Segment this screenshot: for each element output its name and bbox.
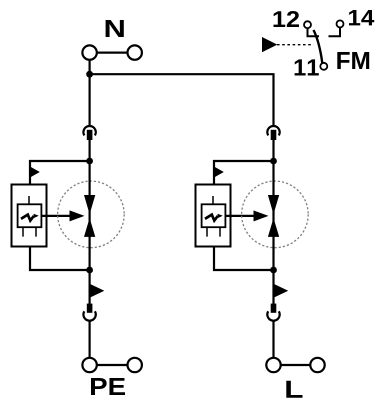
label 14 [349,10,374,25]
trigger arrow T1 head [70,210,85,221]
wire left to PE [88,321,90,358]
wire right branch lower [214,247,274,271]
trigger box T2 bolt [205,215,218,221]
gap electrode right down [268,195,279,214]
node left lower junction [86,267,93,274]
wire right mid [272,140,274,161]
FM contact 14 circle [337,20,344,27]
wire left upper [88,74,90,125]
disconnector F1 arc [83,126,95,135]
wire left through gap [88,161,90,270]
wire right through gap [272,161,274,270]
trigger box T1 top tick [28,196,30,205]
gap electrode left up [84,218,95,237]
wire right to L [272,321,274,358]
wire right branch upper [214,161,274,185]
label N [106,20,124,37]
FM contact 14 lead [329,27,341,36]
FM dashed link [277,44,314,46]
flag right lower [274,284,289,298]
disconnector F1 bar [87,130,93,140]
terminal L1 [266,358,280,372]
terminal PE1 [82,358,96,372]
flag right branch [214,167,224,178]
flag left lower [90,284,105,298]
wire left branch lower [30,247,90,271]
trigger box T2 [196,185,231,247]
terminal N2 [128,45,142,59]
gap electrode right up [268,218,279,237]
node right lower junction [270,267,277,274]
FM contact 11 circle [320,63,327,70]
trigger box T2 inner [202,204,226,227]
FM lever [314,30,323,63]
gas discharge tube G1 dashed circle [58,181,125,248]
trigger box T2 bottom ticks [207,227,220,236]
terminal L2 [310,358,324,372]
trigger arrow T1 line [41,215,71,217]
wire PE link [97,364,128,366]
label 11 [295,59,319,75]
wire L link [281,364,311,366]
gas discharge tube G2 dashed circle [242,181,309,248]
disconnector F3 bar [271,130,277,140]
wire left low [88,270,90,304]
wire left branch upper [30,161,90,185]
trigger box T2 top tick [212,196,214,205]
terminal PE2 [128,358,142,372]
wire N bus [90,74,274,125]
wire N link [97,51,128,53]
FM contact 12 lead [308,28,320,36]
disconnector F4 arc [267,311,279,320]
label FM [337,52,369,69]
disconnector F2 bar [87,304,93,313]
flag left branch [30,167,40,178]
node N bus junction [86,71,93,78]
disconnector F2 arc [83,311,95,320]
wire left mid [88,140,90,161]
FM contact 12 circle [304,21,311,28]
FM indicator arrow [262,37,277,52]
gap electrode left down [84,195,95,214]
trigger box T1 inner [18,204,42,227]
node right upper junction [270,158,277,165]
label PE [91,378,125,395]
disconnector F4 bar [271,304,277,313]
trigger box T1 bolt [21,215,34,221]
node left upper junction [86,158,93,165]
trigger box T1 [12,185,47,247]
wire right low [272,270,274,304]
label 12 [274,11,300,27]
terminal N1 [82,45,96,59]
trigger arrow T2 line [225,215,255,217]
wire N drop [88,60,90,74]
trigger box T1 bottom ticks [23,227,36,236]
trigger arrow T2 head [254,210,269,221]
label L [286,381,302,398]
disconnector F3 arc [267,126,279,135]
